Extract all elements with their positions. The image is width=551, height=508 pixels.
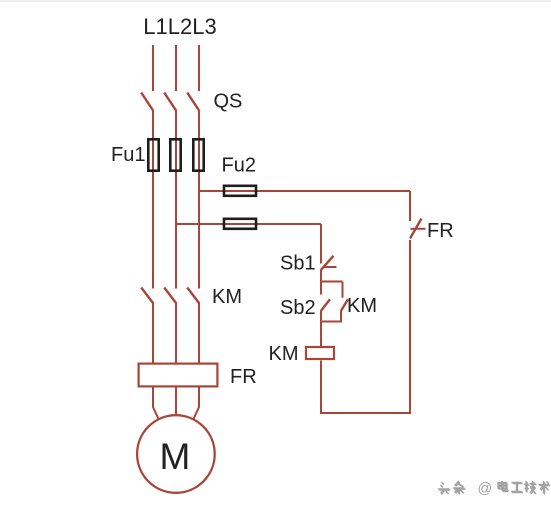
svg-text:L1L2L3: L1L2L3: [143, 14, 216, 39]
svg-text:FR: FR: [230, 366, 257, 388]
svg-text:M: M: [160, 436, 191, 477]
svg-text:Fu1: Fu1: [111, 144, 145, 166]
svg-text:Sb2: Sb2: [280, 297, 316, 319]
svg-text:FR: FR: [427, 220, 454, 242]
svg-text:QS: QS: [214, 91, 243, 113]
svg-text:@: @: [478, 481, 493, 497]
svg-text:Sb1: Sb1: [280, 252, 316, 274]
svg-text:KM: KM: [269, 343, 299, 365]
svg-text:KM: KM: [347, 295, 377, 317]
svg-text:KM: KM: [212, 286, 242, 308]
svg-text:Fu2: Fu2: [222, 154, 256, 176]
